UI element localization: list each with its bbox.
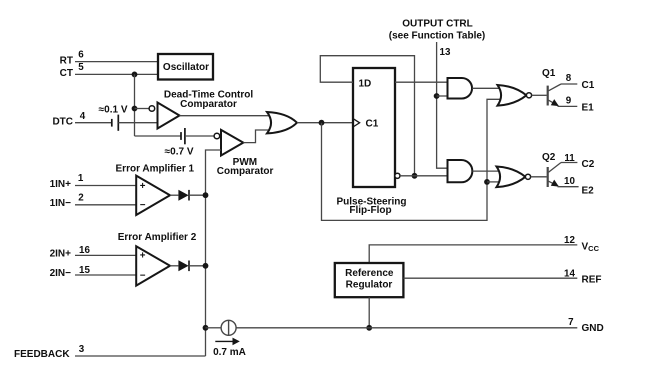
svg-text:16: 16 xyxy=(79,245,90,256)
wire output ctrl pin 13 down to AND2 xyxy=(437,42,448,168)
junction OR output node xyxy=(319,120,325,126)
svg-text:≈0.1 V: ≈0.1 V xyxy=(99,104,128,115)
NOR gate N1 xyxy=(498,85,527,106)
wire OR output to flip-flop clock xyxy=(297,122,353,124)
transistor Q2 collector stroke xyxy=(549,163,562,173)
svg-text:2IN−: 2IN− xyxy=(50,268,72,279)
wire feedback rail to PWM input xyxy=(206,150,222,356)
svg-text:OUTPUT CTRL: OUTPUT CTRL xyxy=(402,18,473,29)
wire reference regulator to ground rail xyxy=(368,297,370,328)
junction NOR2 input node xyxy=(484,179,490,185)
svg-text:0.7 mA: 0.7 mA xyxy=(213,347,246,358)
PWM comparator input bubble xyxy=(214,133,220,139)
AND gate A2 xyxy=(448,160,473,182)
svg-text:Q1: Q1 xyxy=(542,68,556,79)
wire AND2 output to NOR2 xyxy=(472,170,501,172)
wire EA2 output to diode xyxy=(170,265,178,267)
junction EA1 output node xyxy=(203,192,209,198)
flip-flop clock symbol xyxy=(353,119,360,127)
current source I1 circle xyxy=(221,320,236,335)
diode D1 triangle xyxy=(178,190,188,201)
flip-flop Qbar bubble xyxy=(395,173,400,178)
wire PWM comparator output to OR gate xyxy=(243,130,273,143)
error amplifier 1 triangle xyxy=(136,176,170,215)
svg-text:FEEDBACK: FEEDBACK xyxy=(14,349,70,360)
svg-text:VCC: VCC xyxy=(582,241,600,253)
svg-text:1: 1 xyxy=(78,173,84,184)
wire NOR1 output to Q1 base xyxy=(532,94,547,96)
wire FEEDBACK pin 3 xyxy=(75,355,206,357)
svg-text:−: − xyxy=(140,271,146,282)
oscillator box xyxy=(158,54,213,80)
diode D2 triangle xyxy=(178,260,188,271)
NOR1 output bubble xyxy=(526,93,531,98)
current flow arrowhead xyxy=(233,338,240,346)
wire EA1 output to diode xyxy=(170,194,178,196)
battery 0.7V long plate xyxy=(184,128,186,144)
wire comparator output down and across to NOR inputs xyxy=(322,99,504,220)
svg-text:Oscillator: Oscillator xyxy=(163,62,209,73)
wire emitter E1 xyxy=(558,105,578,107)
svg-text:3: 3 xyxy=(79,344,85,355)
wire battery to DTC comparator input xyxy=(118,122,157,124)
svg-text:Q2: Q2 xyxy=(542,152,556,163)
AND gate A1 xyxy=(448,78,473,99)
transistor Q1 emitter arrow xyxy=(551,99,559,106)
junction Qbar feedback node xyxy=(412,173,418,179)
svg-text:Error Amplifier 1: Error Amplifier 1 xyxy=(116,163,195,174)
dead-time comparator input bubble xyxy=(149,106,155,112)
node 0.1V junction xyxy=(132,106,138,112)
svg-text:Error Amplifier 2: Error Amplifier 2 xyxy=(118,232,197,243)
svg-text:7: 7 xyxy=(568,317,574,328)
NOR2 output bubble xyxy=(525,174,530,179)
wire dead-time comparator output to OR gate xyxy=(180,115,274,117)
wire CT to oscillator xyxy=(75,73,158,75)
wire diode D1 to rail xyxy=(189,194,206,196)
svg-text:(see Function Table): (see Function Table) xyxy=(389,30,486,41)
svg-text:CT: CT xyxy=(60,68,73,79)
junction on CT line xyxy=(132,72,138,78)
wire Q output to AND1 xyxy=(395,81,448,83)
reference regulator box xyxy=(335,263,404,297)
battery 0.1V long plate xyxy=(117,115,119,131)
svg-text:14: 14 xyxy=(564,269,575,280)
svg-text:C1: C1 xyxy=(366,119,379,130)
wire GND pin 7 xyxy=(236,327,577,329)
OR gate U1 xyxy=(267,112,297,133)
wire 2IN- to amplifier xyxy=(75,274,136,276)
svg-text:2: 2 xyxy=(78,193,84,204)
wire RT to oscillator xyxy=(75,61,158,63)
error amplifier 2 triangle xyxy=(136,246,170,285)
NOR gate N2 xyxy=(497,167,526,188)
wire 0.7V branch to battery xyxy=(135,135,182,137)
svg-text:9: 9 xyxy=(566,96,572,107)
transistor Q2 emitter arrow xyxy=(551,180,559,187)
svg-text:C2: C2 xyxy=(582,159,595,170)
wire battery to PWM bubble xyxy=(185,135,214,137)
wire 1IN- to amplifier xyxy=(75,204,136,206)
wire NOR2 output to Q2 base xyxy=(531,176,547,178)
junction reference regulator ground node xyxy=(366,325,372,331)
svg-text:Reference: Reference xyxy=(345,268,394,279)
svg-text:Regulator: Regulator xyxy=(346,280,393,291)
svg-text:11: 11 xyxy=(564,153,575,164)
diode D2 cathode bar xyxy=(188,261,190,272)
svg-text:GND: GND xyxy=(582,323,604,334)
wire emitter E2 xyxy=(558,186,579,188)
wire node to DTC bubble xyxy=(135,108,150,110)
wire AND1 output to NOR1 xyxy=(472,87,502,89)
svg-text:E1: E1 xyxy=(582,103,595,114)
dead-time control comparator triangle xyxy=(158,103,180,129)
wire REF pin 14 xyxy=(403,277,577,279)
svg-text:Comparator: Comparator xyxy=(180,99,237,110)
svg-text:5: 5 xyxy=(78,62,84,73)
svg-text:−: − xyxy=(140,200,146,211)
svg-text:10: 10 xyxy=(564,176,575,187)
svg-text:13: 13 xyxy=(440,47,451,58)
svg-text:≈0.7 V: ≈0.7 V xyxy=(165,146,194,157)
current flow arrow xyxy=(215,340,234,342)
svg-text:6: 6 xyxy=(78,50,84,61)
svg-text:RT: RT xyxy=(60,56,73,67)
wire branch to NOR2 lower input xyxy=(487,181,503,183)
transistor Q2 base bar xyxy=(547,167,549,187)
svg-text:REF: REF xyxy=(582,274,602,285)
wire Qbar output to AND2 xyxy=(400,175,448,177)
transistor Q1 emitter stroke xyxy=(549,100,559,106)
transistor Q1 collector stroke xyxy=(549,84,562,91)
wire 2IN+ to amplifier xyxy=(75,254,136,256)
wire VCC pin 12 xyxy=(369,245,577,263)
svg-text:1D: 1D xyxy=(359,79,372,90)
wire 1IN+ to amplifier xyxy=(75,185,136,187)
svg-text:Comparator: Comparator xyxy=(217,166,274,177)
transistor Q2 emitter stroke xyxy=(549,181,559,186)
svg-text:1IN+: 1IN+ xyxy=(50,179,72,190)
battery 0.1V short plate xyxy=(111,119,113,127)
diode D1 cathode bar xyxy=(188,190,190,201)
transistor Q1 base bar xyxy=(547,86,549,106)
svg-text:+: + xyxy=(140,251,146,262)
svg-text:DTC: DTC xyxy=(52,117,73,128)
svg-text:12: 12 xyxy=(564,235,575,246)
svg-text:4: 4 xyxy=(80,111,86,122)
junction EA2 output node xyxy=(203,263,209,269)
wire branch to AND1 lower input xyxy=(437,95,448,97)
svg-text:Flip-Flop: Flip-Flop xyxy=(349,205,391,216)
wire CT node down to 0.7V branch xyxy=(134,74,136,136)
wire rail to current source xyxy=(206,327,222,329)
junction output ctrl to AND1 xyxy=(434,93,440,99)
svg-text:15: 15 xyxy=(79,265,90,276)
junction current source tap xyxy=(203,325,209,331)
current source I1 bar xyxy=(228,320,230,335)
wire collector C2 xyxy=(561,162,577,164)
battery 0.7V short plate xyxy=(180,132,182,140)
svg-text:2IN+: 2IN+ xyxy=(50,249,72,260)
svg-text:E2: E2 xyxy=(582,186,595,197)
pulse-steering flip-flop box xyxy=(353,68,395,187)
svg-text:C1: C1 xyxy=(582,80,595,91)
wire diode D2 to rail xyxy=(189,265,206,267)
wire collector C1 xyxy=(561,83,577,85)
svg-text:+: + xyxy=(140,181,146,192)
svg-text:1IN−: 1IN− xyxy=(50,198,72,209)
svg-text:8: 8 xyxy=(566,73,572,84)
PWM comparator triangle xyxy=(221,130,243,156)
wire DTC pin to battery xyxy=(75,122,112,124)
wire Qbar feedback to 1D input xyxy=(320,56,414,176)
